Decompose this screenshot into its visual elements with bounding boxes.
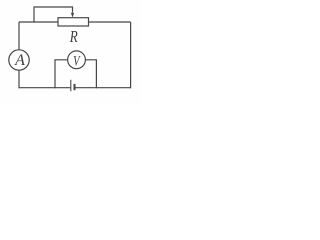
wire: top bus, resistor R1 right terminal to top-right corner: [89, 21, 131, 23]
battery B1: negative plate (short thick): [74, 84, 76, 90]
wire: right vertical, top-right corner down to bottom-right corner: [130, 22, 132, 88]
ammeter A1: circle body: [9, 50, 29, 70]
resistor R1: rheostat body (rectangular box): [58, 18, 89, 26]
svg-text:A: A: [14, 52, 25, 69]
wire: left vertical, top bus down to ammeter A1 top terminal: [18, 22, 20, 50]
wire: slider branch from junction node (34,22) up and over to wiper of R1: [34, 7, 73, 23]
wire: left vertical, ammeter A1 bottom terminal down to bottom bus: [18, 70, 20, 88]
wire: voltmeter V1 left lead down to bottom bus: [55, 60, 68, 88]
resistor R1: slider wiper arrowhead: [71, 13, 74, 18]
wire: bottom bus, battery B1 negative plate to bottom-right corner: [75, 87, 130, 89]
battery B1: positive plate (long thin): [70, 80, 72, 91]
wire: bottom bus, left corner to battery B1 positive plate: [19, 87, 70, 89]
svg-text:R: R: [69, 27, 78, 46]
wire: top bus, left corner to resistor R1 left terminal: [19, 21, 58, 23]
wire: voltmeter V1 right lead down to bottom bus: [86, 60, 97, 88]
voltmeter V1: circle body: [68, 51, 86, 69]
